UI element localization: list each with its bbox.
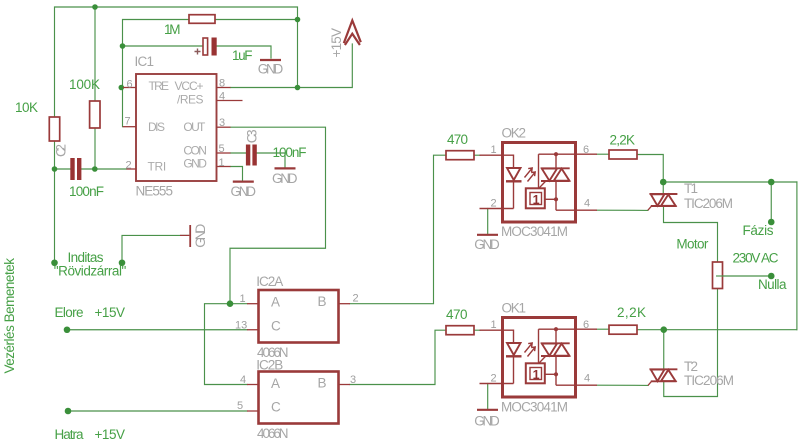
node Inditas right [119, 259, 126, 266]
label TIC206M (T1) [684, 196, 733, 211]
wire 2,2K bottom rail [637, 329, 797, 331]
wire 1uF left [123, 45, 204, 47]
net label Elore [55, 305, 84, 320]
svg-text:100K: 100K [69, 77, 100, 92]
pin 2 TRI [126, 160, 137, 172]
pin 1 OK2 [491, 144, 497, 156]
resistor 100K [90, 101, 100, 128]
svg-text:1: 1 [491, 144, 497, 156]
value 100nF (C2) [69, 184, 104, 199]
wire 2,2K top to T1 [637, 155, 663, 194]
svg-text:10K: 10K [15, 100, 38, 115]
ground (C3) [272, 168, 298, 186]
svg-text:GND: GND [183, 157, 207, 171]
ground (IC1 pin1) [231, 182, 257, 199]
wire 1M right lead [215, 19, 298, 21]
optocoupler OK2 MOC3041M body [503, 143, 576, 223]
analog switch IC2B body [259, 372, 339, 424]
wire Fazis right vertical [796, 182, 798, 330]
node Elore [64, 326, 71, 333]
label MOC3041M (OK1) [501, 400, 568, 415]
wire pin5 to C3 [231, 152, 246, 154]
svg-text:C3: C3 [245, 129, 260, 143]
junction C2 right [92, 166, 98, 172]
net label Rovidzarral [54, 264, 127, 279]
svg-text:TIC206M: TIC206M [684, 196, 733, 211]
wire 1M left / TRE net vertical [123, 20, 190, 127]
svg-text:2: 2 [491, 373, 497, 385]
svg-text:Nulla: Nulla [758, 277, 787, 292]
svg-text:VCC+: VCC+ [175, 79, 204, 93]
wire OK1 pin6 to 2,2K bottom [597, 328, 609, 330]
net label +15V (Hatra) [95, 427, 126, 442]
svg-text:1: 1 [533, 193, 540, 207]
wire V+ top rail [55, 7, 298, 117]
resistor 2,2K (top) [609, 150, 637, 159]
pin 4 IC2B A [240, 374, 258, 386]
svg-text:6: 6 [583, 319, 589, 331]
wire TRI net [55, 168, 71, 170]
svg-text:4: 4 [240, 374, 246, 386]
svg-text:1: 1 [219, 157, 225, 169]
junction pin6 [119, 85, 125, 91]
svg-text:2,2K: 2,2K [610, 133, 636, 148]
label NE555 [136, 184, 174, 199]
wire OK2 pin4 to T1 gate [597, 209, 648, 211]
net label +15V (Elore) [95, 305, 126, 320]
wire Motor bottom to T2 [664, 289, 718, 397]
svg-text:6: 6 [583, 144, 589, 156]
pin 4 OK2 [584, 198, 590, 210]
svg-text:4: 4 [219, 91, 225, 103]
svg-text:Vezérlés Bemenetek: Vezérlés Bemenetek [2, 258, 17, 374]
wire OUT branch to IC2B pin4 [205, 304, 248, 385]
svg-text:C2: C2 [54, 144, 69, 157]
junction C2 left [52, 166, 58, 172]
pin 2 OK1 [491, 373, 497, 385]
svg-text:IC2A: IC2A [256, 274, 283, 289]
svg-text:TRI: TRI [148, 160, 167, 174]
svg-text:3: 3 [219, 117, 225, 129]
svg-text:5: 5 [237, 400, 243, 412]
wire T2 top drop [663, 330, 665, 369]
label TIC206M (T2) [684, 373, 734, 388]
junction pin8 rail [295, 85, 301, 91]
pin 2 OK2 [491, 198, 497, 210]
junction IC2A pin1 [227, 300, 234, 307]
svg-text:OK2: OK2 [502, 126, 527, 141]
junction T2 top [660, 326, 667, 333]
pin 1 GND [217, 157, 231, 169]
net label Hatra [55, 427, 84, 442]
pin 5 CON [217, 143, 231, 155]
label IC2B [256, 358, 283, 373]
svg-text:MOC3041M: MOC3041M [501, 400, 568, 415]
wire Hatra to pin5 [68, 410, 247, 412]
pin 3 IC2B B [339, 374, 357, 386]
net label Fazis [743, 223, 774, 238]
svg-text:230V AC: 230V AC [733, 251, 779, 266]
wire Nulla tap [718, 275, 772, 277]
triac T1 TIC206M [648, 194, 678, 210]
svg-text:2: 2 [491, 198, 497, 210]
resistor 1M [189, 15, 215, 24]
svg-text:1M: 1M [164, 22, 181, 37]
zero-cross box "1" (OK1) [526, 363, 545, 383]
svg-text:B: B [318, 294, 327, 309]
svg-text:GND: GND [474, 414, 500, 429]
svg-text:470: 470 [447, 132, 468, 147]
photo-triac (OK2) [539, 152, 598, 210]
label MOC3041M (OK2) [501, 224, 568, 239]
wire 470 top to OK2 pin1 [474, 154, 480, 156]
op-amp/timer IC1 NE555 body [136, 74, 217, 181]
wire 1uF right to GND [217, 46, 272, 58]
value 1M [164, 22, 181, 37]
junction 100K/V+ [92, 4, 98, 10]
wire OK2 pin2 to GND [487, 209, 489, 234]
resistor 470 (top) [446, 151, 474, 160]
wire pin1 GND drop [231, 167, 243, 181]
svg-text:1uF: 1uF [232, 48, 253, 63]
svg-text:7: 7 [125, 116, 131, 128]
svg-text:"Rövidzárral": "Rövidzárral" [54, 264, 127, 279]
capacitor 1uF (polarized) [195, 38, 217, 56]
label 4066N (IC2B) [257, 426, 289, 441]
svg-text:100nF: 100nF [69, 184, 104, 199]
svg-text:+15V: +15V [95, 427, 126, 442]
svg-text:+15V: +15V [329, 28, 344, 58]
svg-text:4: 4 [584, 198, 590, 210]
optocoupler OK1 MOC3041M body [503, 318, 576, 398]
pin 1 OK1 [491, 319, 497, 331]
resistor 10K [49, 117, 59, 141]
wire OK1 pin4 to T2 gate [597, 384, 648, 386]
label 4066N (IC2A) [257, 345, 289, 360]
svg-text:2: 2 [353, 293, 359, 305]
svg-text:T1: T1 [684, 181, 698, 196]
photon arrows (OK2) [525, 168, 536, 182]
svg-text:4066N: 4066N [257, 426, 289, 441]
svg-text:C: C [271, 400, 281, 415]
wire 100K bottom to junction [94, 128, 96, 169]
svg-text:8: 8 [219, 78, 225, 90]
wire Inditas to GND [122, 235, 189, 262]
label C2 (rotated) [54, 144, 69, 157]
node Nulla [768, 273, 775, 280]
ground (OK1) [474, 410, 500, 429]
pin 5 IC2B C [237, 400, 258, 412]
svg-text:5: 5 [219, 143, 225, 155]
svg-text:1: 1 [240, 293, 246, 305]
value 2,2K (top) [610, 133, 636, 148]
wire T1 bottom to Motor top [664, 207, 718, 263]
junction Fazis rail [768, 179, 775, 186]
analog switch IC2A body [259, 290, 339, 343]
pin 8 VCC [217, 78, 231, 90]
value 1uF [232, 48, 253, 63]
svg-text:6: 6 [127, 79, 133, 91]
wire OK2 pin6 to 2,2K [597, 153, 609, 155]
svg-text:1: 1 [533, 368, 540, 382]
label +15V (supply, rotated) [329, 28, 344, 58]
photon arrows (OK1) [525, 343, 536, 357]
svg-text:A: A [271, 376, 280, 391]
svg-text:C: C [271, 318, 281, 333]
label C3 (rotated) [245, 129, 260, 143]
wire OUT to IC2A pin1 [230, 303, 247, 305]
label IC1 [135, 54, 155, 69]
diode LED (OK2) [480, 155, 522, 208]
pin 2 IC2A B [339, 293, 359, 305]
svg-text:470: 470 [446, 307, 468, 322]
svg-text:1: 1 [491, 319, 497, 331]
svg-text:GND: GND [258, 62, 284, 77]
wire Fazis rail top [663, 181, 797, 183]
svg-text:13: 13 [235, 320, 247, 332]
wire OK1 pin2 to GND [487, 384, 489, 409]
value 10K [15, 100, 38, 115]
label T2 [684, 359, 698, 374]
svg-text:2: 2 [126, 160, 132, 172]
svg-text:Elore: Elore [55, 305, 84, 320]
svg-text:Motor: Motor [676, 237, 709, 252]
node Fazis [768, 219, 775, 226]
pin 13 IC2A C [235, 320, 258, 332]
label OK2 [502, 126, 527, 141]
value 100K [69, 77, 100, 92]
pin 3 OUT [217, 117, 231, 129]
svg-text:OUT: OUT [183, 120, 206, 134]
resistor 470 (bottom) [446, 326, 474, 335]
value 2,2K (bottom) [617, 305, 646, 320]
motor M (winding) [713, 262, 724, 289]
diode LED (OK1) [480, 330, 522, 383]
value 470 (top) [447, 132, 468, 147]
svg-text:OK1: OK1 [502, 301, 527, 316]
svg-text:TIC206M: TIC206M [684, 373, 734, 388]
svg-text:CON: CON [183, 143, 207, 157]
net label Nulla [758, 277, 787, 292]
svg-text:Fázis: Fázis [743, 223, 774, 238]
node Hatra [65, 408, 72, 415]
svg-text:Hatra: Hatra [55, 427, 84, 442]
ground (OK2) [474, 235, 500, 252]
label IC2A [256, 274, 283, 289]
svg-text:/RES: /RES [177, 93, 204, 107]
net label 230V AC [733, 251, 779, 266]
svg-text:GND: GND [231, 184, 257, 199]
svg-text:2,2K: 2,2K [617, 305, 646, 320]
svg-text:NE555: NE555 [136, 184, 174, 199]
triac T2 TIC206M [648, 369, 677, 385]
wire Elore to pin13 [67, 329, 247, 331]
photo-triac (OK1) [539, 327, 598, 385]
wire 10K bottom to C2 junction [54, 141, 56, 169]
wire IC2B out to 470 bottom [350, 330, 446, 384]
wire pin8 to +15V [231, 44, 353, 88]
svg-text:3: 3 [350, 374, 356, 386]
svg-text:100nF: 100nF [273, 145, 307, 160]
ground (Inditas, rotated) [180, 223, 208, 247]
label OK1 [502, 301, 527, 316]
value 100nF (C3) [273, 145, 307, 160]
wire 470 bottom to OK1 pin1 [474, 329, 480, 331]
svg-text:MOC3041M: MOC3041M [501, 224, 568, 239]
wire Fazis label drop [770, 182, 772, 222]
net label Motor [676, 237, 709, 252]
junction 1uF/TRE [120, 43, 126, 49]
svg-text:T2: T2 [684, 359, 698, 374]
pin 6 TRE [123, 79, 136, 91]
pin 6 OK2 [583, 144, 589, 156]
node Inditas left [51, 259, 58, 266]
svg-text:B: B [318, 376, 327, 391]
junction 1M right [295, 17, 301, 23]
svg-text:A: A [271, 295, 280, 310]
svg-text:DIS: DIS [148, 120, 165, 134]
wire IC2A out to 470 top [350, 155, 446, 304]
wire C3 to GND [257, 153, 285, 167]
supply +15V [344, 20, 361, 45]
capacitor C2 100nF [70, 158, 81, 180]
title Vezerles Bemenetek (rotated) [2, 258, 17, 374]
svg-text:IC1: IC1 [135, 54, 155, 69]
junction T1 top [660, 179, 667, 186]
wire pin6 junction stub [121, 87, 123, 89]
pin 4 OK1 [584, 373, 590, 385]
value 470 (bottom) [446, 307, 468, 322]
svg-text:GND: GND [272, 171, 298, 186]
svg-text:TRE: TRE [149, 79, 170, 93]
pin 4 /RES [217, 91, 243, 103]
svg-text:GND: GND [193, 223, 208, 247]
pin 6 OK1 [583, 319, 589, 331]
net label Inditas [68, 250, 104, 265]
pin 1 IC2A A [240, 293, 259, 305]
ground (1uF) [258, 60, 284, 77]
wire OUT net routing [230, 127, 326, 304]
wire 100K top lead [94, 7, 96, 101]
pin 7 DIS [123, 116, 136, 128]
resistor 2,2K (bottom) [609, 325, 637, 334]
svg-text:GND: GND [474, 237, 500, 252]
zero-cross box "1" (OK2) [526, 188, 545, 208]
label T1 [684, 181, 698, 196]
svg-text:+15V: +15V [95, 305, 126, 320]
wire junction to Inditas dot [54, 169, 56, 263]
capacitor C3 100nF [246, 145, 257, 166]
svg-text:4: 4 [584, 373, 590, 385]
svg-text:IC2B: IC2B [256, 358, 283, 373]
